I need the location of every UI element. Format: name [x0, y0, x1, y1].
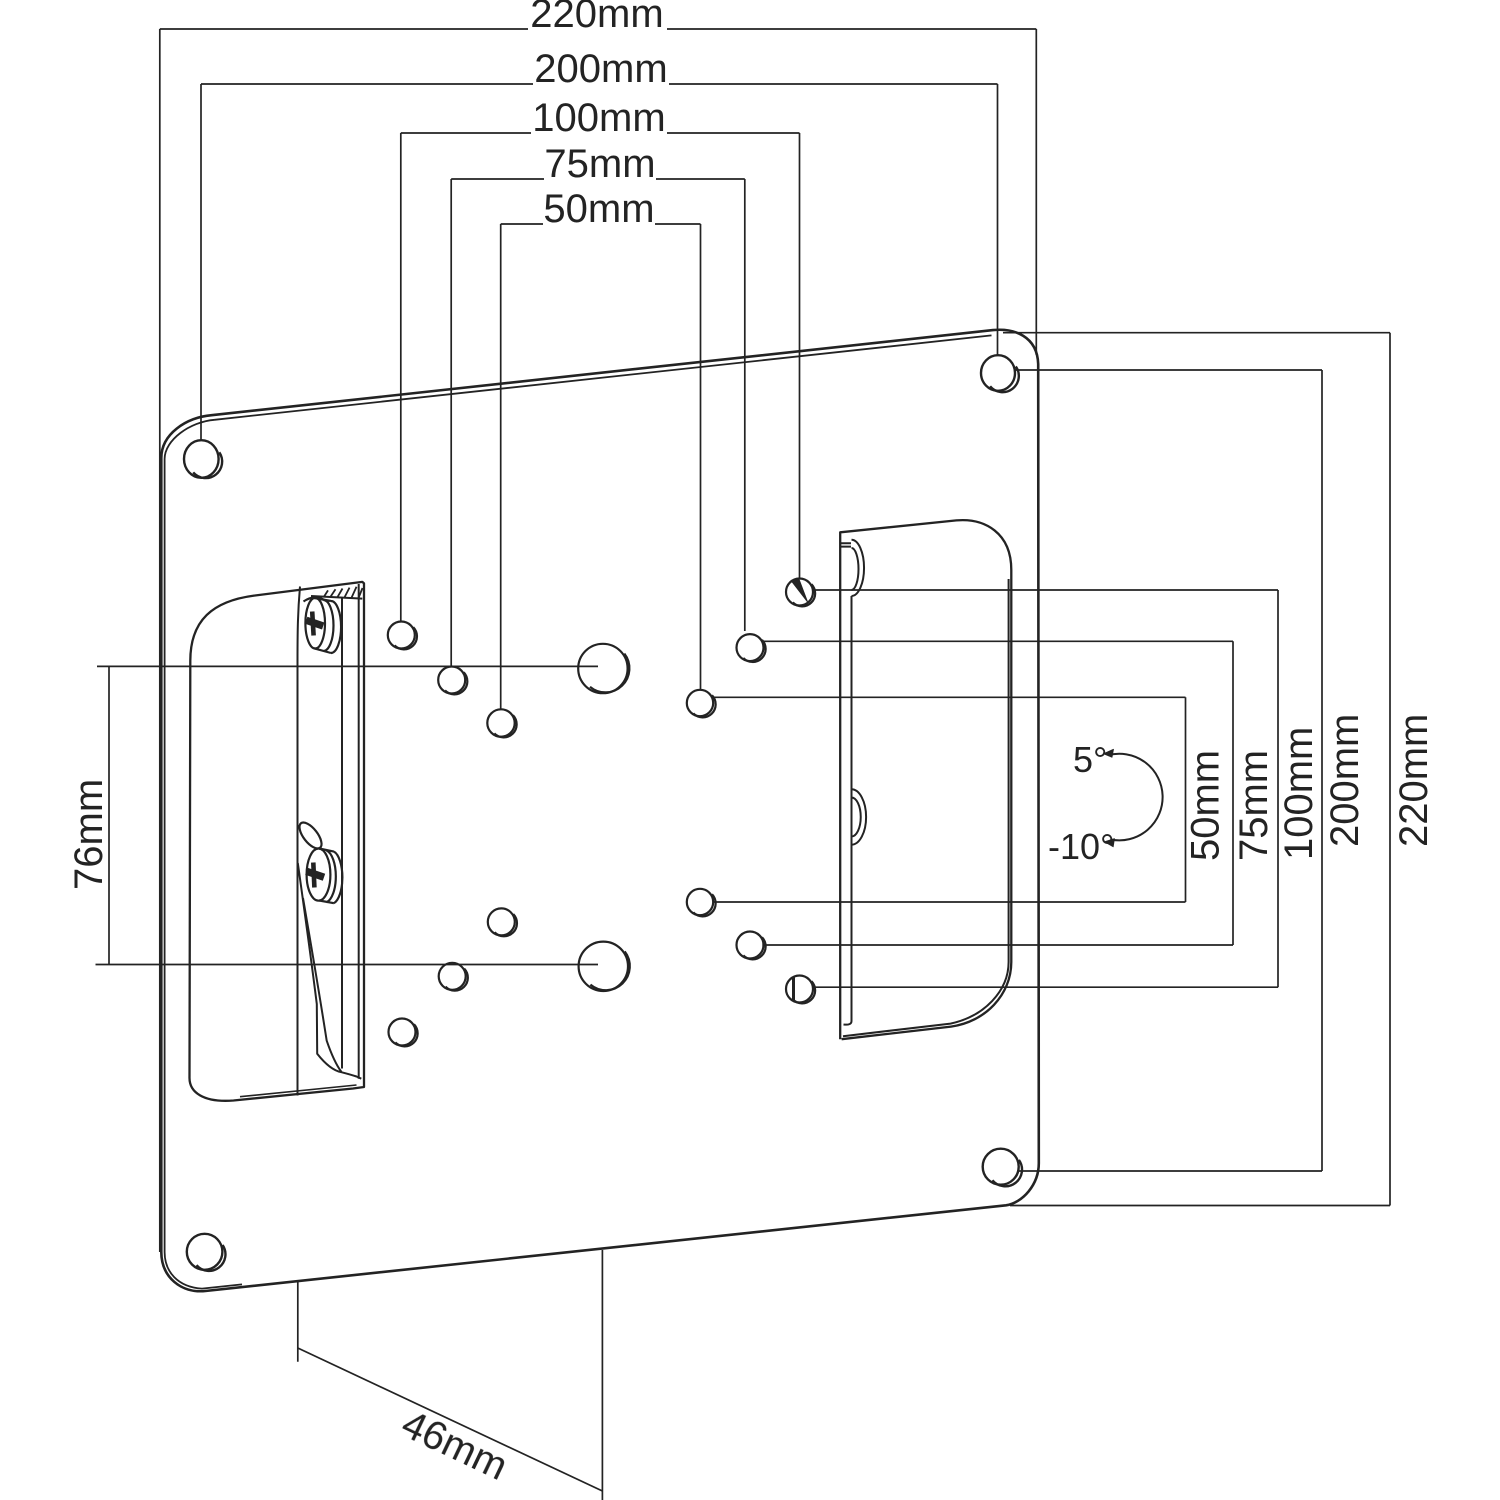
svg-text:220mm: 220mm	[530, 0, 663, 36]
connector 100mm top right	[813, 589, 1278, 591]
connector 76mm top	[97, 665, 598, 667]
left cutout inner bottom edge	[240, 1085, 357, 1097]
connector 75mm top right	[762, 640, 1233, 642]
slot mark bottom right	[792, 977, 795, 1000]
tilt arc	[1108, 754, 1162, 841]
corner hole bottom-right	[983, 1149, 1019, 1185]
top screw slot arc	[304, 598, 328, 602]
vesa hole 75 right top	[737, 634, 764, 661]
rail left edge	[298, 587, 301, 1096]
svg-text:75mm: 75mm	[544, 142, 655, 186]
middle screw head face	[307, 849, 331, 901]
svg-text:75mm: 75mm	[1232, 750, 1276, 861]
connector 100mm bottom right	[812, 986, 1278, 988]
svg-text:220mm: 220mm	[1392, 714, 1436, 847]
dim line 200mm top	[201, 83, 998, 85]
vesa hole 50 right top	[687, 690, 713, 716]
extension line 100mm left	[400, 133, 402, 621]
extension line 50mm left	[500, 224, 502, 709]
middle screw head side	[319, 849, 342, 904]
right cutout inner edge	[843, 579, 1009, 1036]
svg-text:100mm: 100mm	[1277, 727, 1321, 860]
extension line 220mm left	[159, 29, 161, 1252]
vesa hole 100 left top	[388, 622, 415, 649]
slot mark top right	[792, 579, 807, 601]
svg-text:-10°: -10°	[1048, 826, 1114, 867]
middle screw cross	[313, 863, 314, 888]
vesa screw hole 100 right bottom	[786, 976, 813, 1003]
dim line 50mm vertical	[1185, 697, 1187, 902]
corner hole top-right rim	[990, 367, 1019, 393]
svg-text:200mm: 200mm	[534, 47, 667, 91]
connector 75mm bottom right	[762, 944, 1233, 946]
dim line 200mm vertical	[1321, 370, 1323, 1171]
dim line 100mm vertical	[1277, 590, 1279, 987]
rail right edge	[341, 598, 343, 1069]
svg-text:50mm: 50mm	[1184, 750, 1228, 861]
strap curve right	[303, 898, 341, 1072]
vesa hole 100 left bottom	[389, 1019, 416, 1046]
right cutout outline	[840, 520, 1011, 1039]
top screw head face	[305, 598, 325, 649]
connector 50mm bottom right	[713, 901, 1186, 903]
connector 76mm bottom	[96, 964, 599, 966]
dim line 46mm slanted	[298, 1348, 603, 1491]
middle screw petal	[295, 819, 325, 852]
right rail strip edge	[844, 596, 852, 1025]
extension line 46mm right	[601, 1250, 603, 1500]
connector 220mm top right	[1003, 332, 1390, 334]
hatch lines	[324, 587, 363, 598]
dim line 76mm vertical	[108, 666, 110, 964]
right rail mid bump	[852, 789, 867, 844]
connector 50mm top right	[713, 696, 1186, 698]
svg-text:50mm: 50mm	[543, 187, 654, 231]
extension line 50mm right	[700, 224, 702, 690]
corner hole top-left	[184, 440, 219, 478]
svg-text:200mm: 200mm	[1323, 714, 1367, 847]
connector 200mm top right	[1015, 369, 1322, 371]
extension line 75mm right	[744, 179, 746, 631]
right rail top cap	[852, 540, 865, 596]
dim line 50mm top	[501, 223, 701, 225]
corner hole top-left rim	[193, 452, 222, 478]
tilt arrow top	[1104, 749, 1114, 757]
connector 200mm bottom right	[1017, 1170, 1322, 1172]
top screw cross	[312, 612, 313, 636]
dim line 75mm top	[451, 178, 745, 180]
vesa hole 75 left top	[438, 667, 465, 694]
corner hole bottom-right rim	[992, 1160, 1022, 1186]
extension line 46mm left	[297, 1282, 299, 1362]
svg-text:100mm: 100mm	[532, 96, 665, 140]
corner hole top-right	[981, 355, 1015, 391]
right rail cap ticks	[840, 543, 851, 546]
vesa hole 50 right bottom	[687, 889, 713, 915]
big hole top	[578, 644, 627, 693]
hatch band bottom	[311, 596, 362, 599]
vesa hole 50 left bottom	[488, 908, 515, 935]
corner hole bottom-left rim	[197, 1245, 226, 1271]
big hole bottom	[579, 942, 628, 991]
strap curve left	[298, 863, 362, 1079]
extension line 200mm left	[200, 84, 202, 441]
extension line 75mm left	[450, 179, 452, 667]
dim line 100mm top	[401, 132, 800, 134]
vesa hole 75 left bottom	[439, 963, 466, 990]
vesa screw hole 100 right top	[786, 579, 813, 606]
extension line 200mm right	[997, 84, 999, 355]
vesa hole 75 right bottom	[737, 932, 764, 959]
connector 220mm bottom right	[1010, 1205, 1390, 1207]
extension line 100mm right	[799, 133, 801, 578]
svg-text:76mm: 76mm	[67, 779, 111, 890]
left cutout outline	[190, 582, 365, 1101]
extension line 220mm right	[1035, 29, 1037, 355]
dim line 220mm top	[160, 28, 1037, 30]
dim line 220mm vertical	[1389, 333, 1391, 1206]
vesa hole 50 left top	[487, 709, 514, 736]
left cutout inner right edge	[358, 584, 360, 1079]
corner hole bottom-left	[187, 1234, 223, 1270]
plate top edge inner line	[215, 335, 992, 419]
dim line 75mm vertical	[1232, 641, 1234, 945]
tilt arrow bottom	[1105, 839, 1115, 847]
plate left edge inner line	[165, 420, 242, 1289]
svg-text:5°: 5°	[1073, 739, 1107, 780]
plate outer outline	[161, 330, 1039, 1291]
top screw head side	[314, 598, 341, 653]
